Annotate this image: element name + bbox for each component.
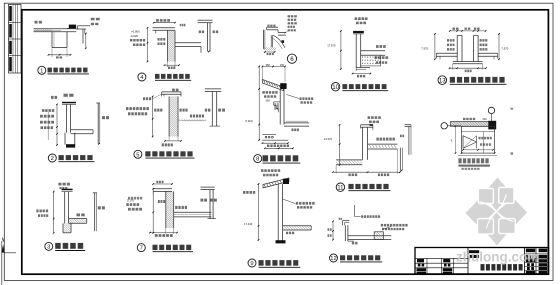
svg-text:12: 12 (330, 256, 336, 262)
svg-text:3: 3 (47, 245, 50, 251)
svg-text:17.440: 17.440 (244, 222, 253, 226)
svg-text:2: 2 (51, 156, 54, 162)
svg-text:+0.000: +0.000 (131, 29, 140, 33)
svg-text:14.370: 14.370 (324, 137, 333, 141)
svg-text:250: 250 (266, 99, 271, 103)
svg-text:11: 11 (337, 184, 344, 191)
svg-text:13: 13 (439, 77, 446, 84)
svg-text:(7.410): (7.410) (245, 119, 253, 123)
svg-text:1: 1 (40, 68, 43, 74)
svg-text:10: 10 (332, 84, 339, 91)
svg-text:7.570: 7.570 (502, 47, 509, 51)
svg-text:17.970: 17.970 (327, 44, 336, 48)
svg-text:350: 350 (266, 63, 271, 67)
svg-text:7: 7 (140, 246, 143, 252)
svg-text:160: 160 (280, 63, 285, 67)
svg-text:8: 8 (256, 157, 259, 163)
svg-text:7.570: 7.570 (421, 47, 428, 51)
svg-text:6: 6 (290, 56, 294, 63)
svg-text:240: 240 (483, 118, 488, 121)
svg-text:-0.020: -0.020 (130, 34, 138, 38)
svg-text:5: 5 (136, 152, 139, 158)
svg-text:zhulong.com: zhulong.com (456, 250, 539, 265)
svg-text:9: 9 (250, 261, 253, 267)
svg-text:9: 9 (451, 140, 453, 143)
